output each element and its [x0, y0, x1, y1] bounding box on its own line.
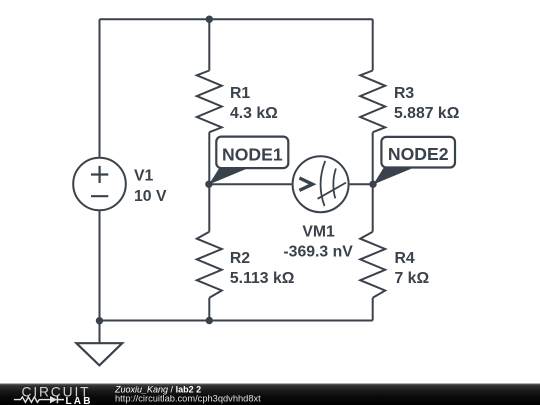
- svg-text:V1: V1: [134, 167, 154, 184]
- wire R2 to bottom: [208, 298, 210, 321]
- junction node B: [369, 181, 376, 188]
- svg-text:-369.3 nV: -369.3 nV: [283, 244, 353, 261]
- wire top horizontal: [100, 18, 373, 20]
- svg-text:10 V: 10 V: [134, 188, 167, 205]
- VM1 arrow: [299, 178, 312, 190]
- resistor R3: [360, 71, 385, 133]
- wire R3 to node B: [372, 132, 374, 184]
- svg-text:R2: R2: [230, 250, 250, 267]
- node label NODE2 tail: [373, 168, 411, 185]
- node label NODE2 box: [381, 137, 455, 168]
- svg-text:R4: R4: [395, 250, 415, 267]
- resistor R4: [360, 232, 385, 298]
- svg-text:R1: R1: [230, 85, 250, 102]
- voltage source V1 circle: [73, 158, 126, 211]
- node label NODE1 box: [216, 137, 288, 169]
- node label NODE1 tail: [209, 168, 247, 185]
- junction node top: [206, 16, 213, 23]
- wire ground stem: [99, 321, 101, 344]
- V1 plus sign: [91, 166, 108, 183]
- VM1 scale arc 2: [333, 169, 336, 199]
- svg-text:http://circuitlab.com/cph3qdvh: http://circuitlab.com/cph3qdvhhd8xt: [115, 394, 261, 404]
- svg-text:5.887 kΩ: 5.887 kΩ: [394, 105, 460, 122]
- wire left vertical (V1 top lead): [99, 19, 101, 158]
- svg-text:4.3 kΩ: 4.3 kΩ: [230, 105, 278, 122]
- voltmeter VM1 circle: [293, 156, 349, 212]
- resistor R2: [197, 232, 222, 298]
- wire voltmeter to node B: [350, 183, 373, 185]
- logo resistor squiggle: [14, 397, 50, 402]
- svg-text:VM1: VM1: [302, 223, 335, 240]
- svg-text:7 kΩ: 7 kΩ: [395, 270, 430, 287]
- resistor R1: [197, 71, 222, 133]
- svg-text:R3: R3: [394, 85, 414, 102]
- junction node bottom left: [96, 317, 103, 324]
- svg-text:LAB: LAB: [66, 396, 93, 405]
- junction node A: [205, 181, 212, 188]
- wire bottom horizontal: [100, 320, 373, 322]
- V1 minus sign: [91, 195, 108, 197]
- wire right vertical (to R3): [372, 19, 374, 70]
- wire middle top (to R1): [208, 19, 210, 70]
- junction node bottom middle: [206, 317, 213, 324]
- svg-text:NODE2: NODE2: [388, 144, 449, 164]
- svg-text:5.113 kΩ: 5.113 kΩ: [230, 270, 295, 287]
- wire left vertical (V1 bottom lead): [99, 210, 101, 320]
- VM1 scale arc 1: [321, 161, 326, 206]
- svg-text:NODE1: NODE1: [222, 144, 283, 164]
- wire node A to voltmeter: [209, 183, 291, 185]
- ground symbol: [76, 343, 122, 365]
- wire R1 to node A: [208, 132, 210, 184]
- wire node B to R4: [372, 184, 374, 231]
- VM1 needle: [318, 183, 346, 199]
- logo diode: [50, 396, 57, 403]
- wire R4 to bottom: [372, 298, 374, 321]
- footer bar: [0, 383, 540, 405]
- wire node A to R2: [208, 184, 210, 231]
